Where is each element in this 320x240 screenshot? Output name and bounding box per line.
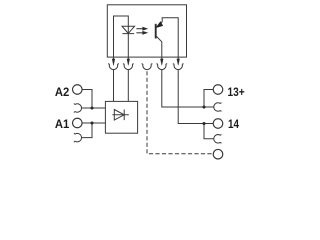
svg-text:A2: A2	[55, 85, 70, 99]
svg-text:14: 14	[228, 117, 239, 131]
svg-text:A1: A1	[55, 117, 70, 131]
svg-text:13+: 13+	[228, 85, 245, 99]
